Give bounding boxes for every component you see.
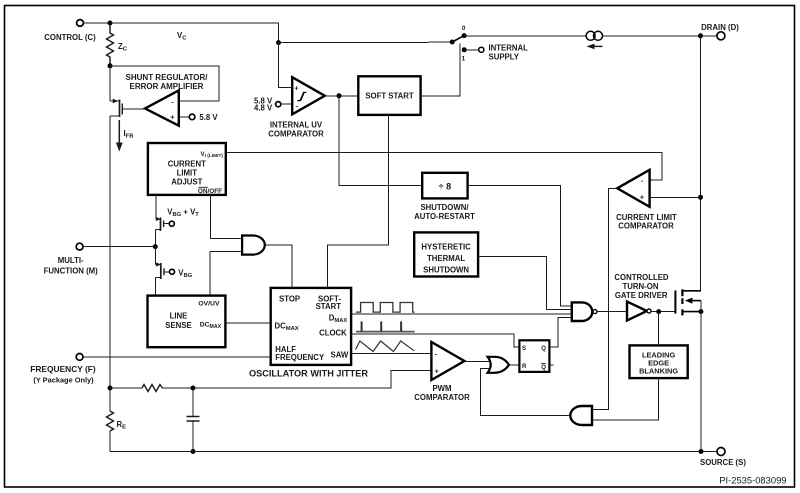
junction drain node <box>698 33 703 38</box>
svg-text:OSCILLATOR WITH JITTER: OSCILLATOR WITH JITTER <box>249 369 368 379</box>
wire soft start bottom to oscillator SOFT-START input <box>328 115 389 288</box>
junction UV output <box>337 93 342 98</box>
svg-text:THERMAL: THERMAL <box>427 254 465 263</box>
waveform SAW triangle wave <box>356 341 415 352</box>
junction bandgap node <box>153 244 158 249</box>
svg-text:INTERNAL: INTERNAL <box>489 44 529 53</box>
svg-text:CONTROL (C): CONTROL (C) <box>44 33 96 42</box>
svg-text:1: 1 <box>462 56 466 63</box>
block divide-by-8 shutdown/auto-restart counter <box>414 173 475 221</box>
op-amp PWM comparator <box>414 342 470 402</box>
svg-text:LIMIT: LIMIT <box>177 169 198 178</box>
svg-text:COMPARATOR: COMPARATOR <box>414 393 470 402</box>
wire line sense DCmax to oscillator <box>225 322 270 324</box>
junction Zc bottom <box>108 63 113 68</box>
waveform DMAX square wave <box>356 303 415 313</box>
wire NAND output to gate driver <box>597 311 627 313</box>
svg-text:SENSE: SENSE <box>165 321 191 330</box>
svg-text:SHUNT REGULATOR/: SHUNT REGULATOR/ <box>126 73 209 82</box>
svg-text:LINE: LINE <box>170 312 188 321</box>
terminal 5.8V/4.8V UV reference <box>254 96 292 112</box>
switch auto-restart (blade and contacts) <box>450 25 467 63</box>
inverter controlled turn-on gate driver <box>614 273 669 321</box>
svg-text:SAW: SAW <box>331 351 349 360</box>
wire AND U1 output to oscillator STOP <box>265 245 292 288</box>
wire OV/UV to AND U1 input <box>210 251 242 295</box>
svg-text:CURRENT: CURRENT <box>168 160 206 169</box>
svg-text:SUPPLY: SUPPLY <box>489 53 520 62</box>
pin SOURCE (S) <box>700 448 746 468</box>
svg-text:GATE DRIVER: GATE DRIVER <box>615 291 668 300</box>
wire gate driver to MOSFET gate <box>651 311 675 313</box>
svg-text:SOFT START: SOFT START <box>365 92 414 101</box>
junction drain sense <box>698 195 703 200</box>
svg-text:+: + <box>435 366 440 375</box>
svg-text:Q: Q <box>541 365 546 371</box>
svg-text:COMPARATOR: COMPARATOR <box>618 221 674 230</box>
junction gate node <box>656 309 661 314</box>
wire current limit comparator output down to blanking AND <box>592 188 617 409</box>
svg-text:CLOCK: CLOCK <box>319 329 347 338</box>
pin MULTI-FUNCTION (M) <box>44 243 99 275</box>
terminal INTERNAL SUPPLY <box>464 44 528 62</box>
svg-text:START: START <box>316 302 342 311</box>
svg-text:+: + <box>640 193 645 202</box>
wire control pin to Vc node <box>84 22 111 24</box>
NAND gate gate-drive logic <box>572 302 597 321</box>
wire latch Q to NAND input <box>549 318 571 348</box>
op-amp error amplifier (points left) <box>145 90 179 125</box>
svg-text:MULTI-: MULTI- <box>58 256 84 265</box>
junction capacitor to source rail <box>191 449 196 454</box>
wire current limit comparator + input to drain sense <box>650 196 701 198</box>
label SHUNT REGULATOR / ERROR AMPLIFIER <box>126 73 209 91</box>
AND gate U1 (stop logic) <box>242 236 265 255</box>
wire PWM output to OR gate <box>464 360 490 362</box>
junction control/Zc <box>108 21 113 26</box>
wire CLOCK to latch S input <box>351 334 519 347</box>
svg-text:Q: Q <box>541 346 546 352</box>
svg-text:FUNCTION (M): FUNCTION (M) <box>44 267 99 276</box>
wire feedback loop to error amp inverting input <box>110 66 219 101</box>
block SOFT START <box>358 76 420 115</box>
svg-text:(Y Package Only): (Y Package Only) <box>33 376 94 385</box>
junction source rail <box>699 449 704 454</box>
node VC wire <box>110 23 279 43</box>
svg-text:INTERNAL UV: INTERNAL UV <box>270 121 323 130</box>
resistor ZC <box>107 25 128 64</box>
svg-text:AUTO-RESTART: AUTO-RESTART <box>414 212 475 221</box>
junction E node <box>108 386 113 391</box>
wire IFB column down to RE node <box>109 116 111 388</box>
svg-text:0: 0 <box>462 25 466 32</box>
block LINE SENSE <box>148 296 226 348</box>
wire DMAX to NAND input <box>351 313 572 315</box>
wire UV comparator output to soft start <box>325 95 359 97</box>
wire AND U2 output to OR gate input <box>480 368 570 415</box>
wire F pin to oscillator HALF FREQUENCY <box>83 356 271 358</box>
svg-text:SHUTDOWN: SHUTDOWN <box>423 266 469 275</box>
svg-text:ON/OFF: ON/OFF <box>198 188 222 195</box>
svg-text:COMPARATOR: COMPARATOR <box>268 130 324 139</box>
resistor RE <box>107 388 127 452</box>
svg-text:STOP: STOP <box>279 295 300 304</box>
transistor VBG sense <box>155 247 192 296</box>
wire soft start output up to switch <box>421 44 460 96</box>
transistor output MOSFET <box>675 289 701 315</box>
resistor frequency set (horizontal) <box>110 385 193 392</box>
terminal 5.8 V reference <box>179 113 219 122</box>
wire Vc node down to UV comparator + input <box>279 43 293 88</box>
svg-text:÷ 8: ÷ 8 <box>439 181 451 191</box>
svg-text:5.8 V: 5.8 V <box>199 113 218 122</box>
wire UV output down to divide-by-8 <box>339 96 422 186</box>
wire VI(LIMIT) to current limit comparator inverting input <box>226 153 662 180</box>
svg-text:SOURCE (S): SOURCE (S) <box>700 458 746 467</box>
block HYSTERETIC THERMAL SHUTDOWN <box>414 232 478 276</box>
pin DRAIN (D) <box>701 23 740 40</box>
wire source rail <box>110 451 717 453</box>
svg-text:BLANKING: BLANKING <box>639 367 678 376</box>
wire divide-by-8 output to NAND input <box>468 186 572 306</box>
wire OR output to latch R <box>509 364 520 366</box>
wire thermal shutdown output to NAND input <box>478 257 572 310</box>
current IFB arrow <box>116 120 134 152</box>
OR gate reset logic <box>488 357 509 373</box>
capacitor CE <box>187 388 200 452</box>
svg-text:ADJUST: ADJUST <box>171 178 202 187</box>
svg-text:+: + <box>170 113 175 122</box>
junction MOSFET source <box>698 309 703 314</box>
svg-text:FREQUENCY: FREQUENCY <box>275 353 325 362</box>
svg-text:S: S <box>522 346 526 352</box>
svg-text:FREQUENCY (F): FREQUENCY (F) <box>30 364 96 374</box>
svg-text:OV/UV: OV/UV <box>198 301 220 308</box>
pin CONTROL (C) <box>44 20 96 42</box>
block CURRENT LIMIT ADJUST <box>148 143 226 195</box>
pin FREQUENCY (F) <box>30 354 96 385</box>
svg-text:ERROR AMPLIFIER: ERROR AMPLIFIER <box>130 82 204 91</box>
svg-text:HYSTERETIC: HYSTERETIC <box>421 243 471 252</box>
svg-text:+: + <box>294 83 299 92</box>
wire Vc to supply switch <box>279 41 453 43</box>
wire ON/OFF to AND gate U1 <box>210 195 242 239</box>
wire leading edge blanking to AND U2 <box>592 378 658 420</box>
latch S-R flip-flop <box>519 340 553 372</box>
wire switch contact 0 to current source <box>464 35 586 37</box>
transistor VBG+VT sense <box>155 195 199 247</box>
svg-text:VBG + VT: VBG + VT <box>167 208 199 219</box>
svg-text:DRAIN (D): DRAIN (D) <box>701 23 739 32</box>
svg-text:PI-2535-083099: PI-2535-083099 <box>719 475 786 486</box>
svg-text:CONTROLLED: CONTROLLED <box>614 273 669 282</box>
transistor source follower Q-FB <box>110 66 145 117</box>
svg-text:R: R <box>522 364 527 370</box>
svg-text:4.8 V: 4.8 V <box>254 104 273 113</box>
wire gate node to leading edge blanking <box>658 312 660 346</box>
wire SAW to PWM comparator - input <box>351 353 431 355</box>
junction capacitor node <box>191 386 196 391</box>
svg-text:TURN-ON: TURN-ON <box>623 282 659 291</box>
block LEADING EDGE BLANKING <box>630 345 688 378</box>
block OSCILLATOR WITH JITTER <box>249 288 368 379</box>
wire current source to drain node <box>603 35 701 37</box>
svg-text:SHUTDOWN/: SHUTDOWN/ <box>420 203 469 212</box>
wire E row to PWM comparator + input <box>193 371 431 388</box>
op-amp current limit comparator (points left) <box>616 170 677 231</box>
waveform CLOCK spikes <box>356 321 415 331</box>
svg-text:PWM: PWM <box>432 384 451 393</box>
AND gate U2 blanking (points left) <box>570 406 592 425</box>
wire M pin to bandgap node <box>83 246 155 248</box>
current source ICH (charging current) <box>586 31 602 49</box>
op-amp internal UV comparator <box>268 77 325 139</box>
wire drain vertical to MOSFET <box>700 36 702 291</box>
junction Vc branch <box>276 40 281 45</box>
wire MOSFET source to source rail <box>700 312 702 452</box>
